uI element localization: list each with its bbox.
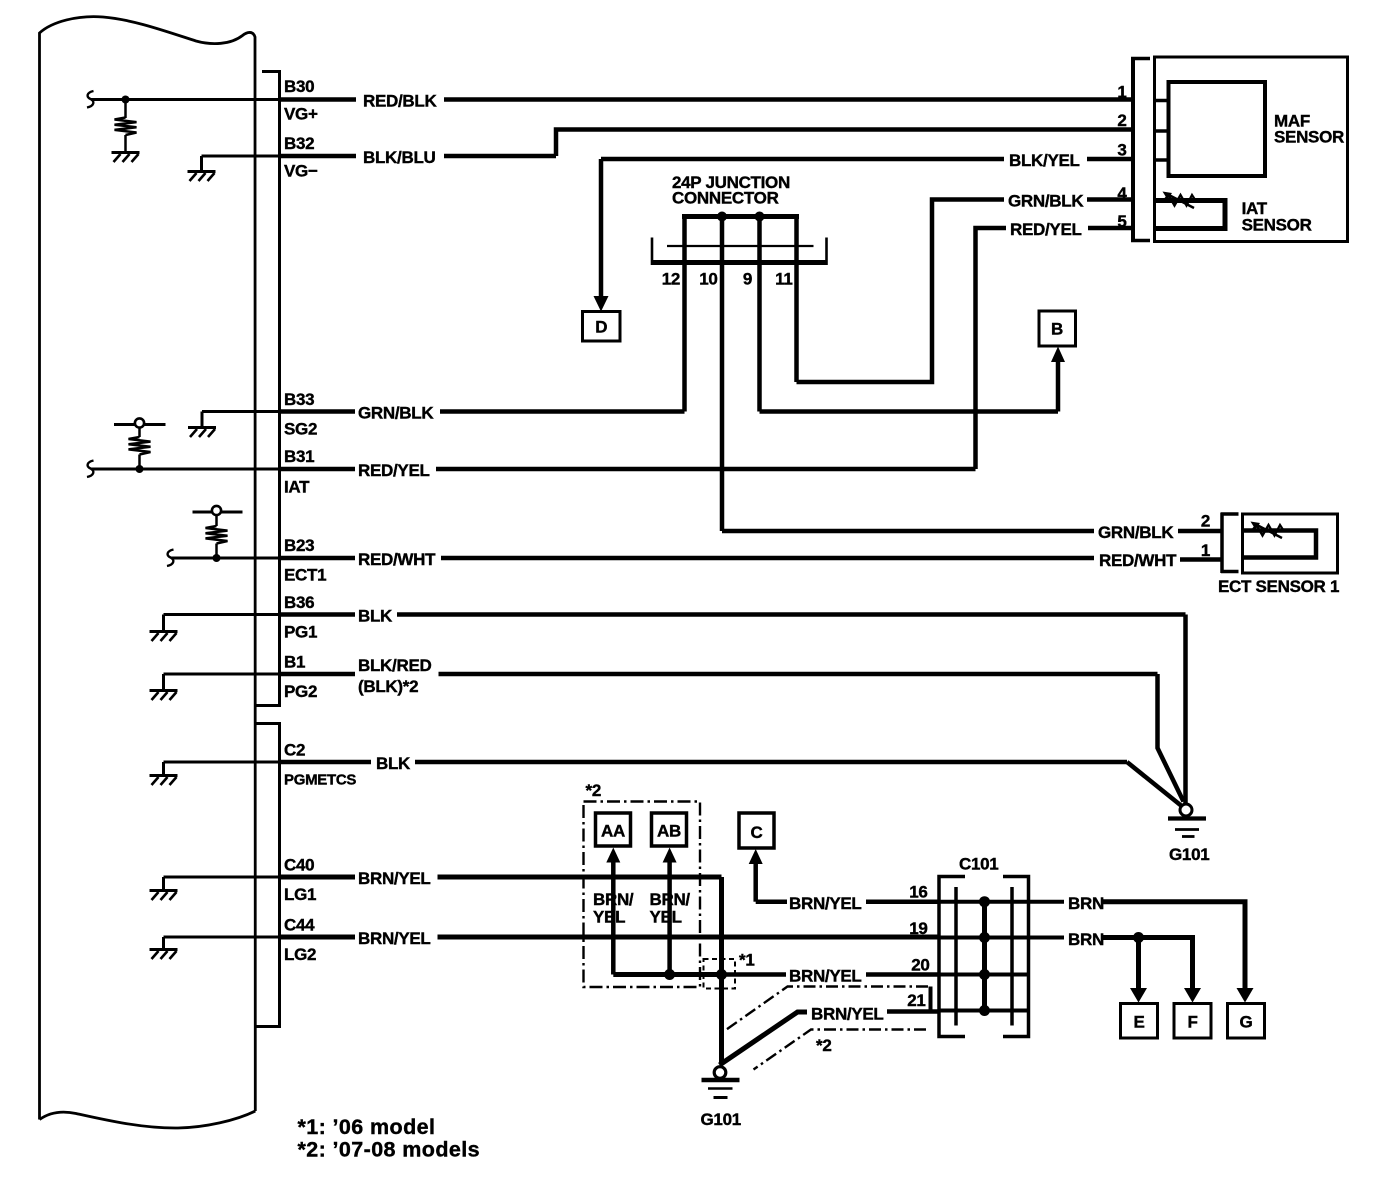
svg-text:*2: ’07-08 models: *2: ’07-08 models xyxy=(298,1138,480,1162)
svg-text:BRN: BRN xyxy=(1068,930,1104,949)
svg-text:*1: *1 xyxy=(739,951,754,970)
svg-text:(BLK)*2: (BLK)*2 xyxy=(358,677,418,696)
svg-text:PG2: PG2 xyxy=(284,682,317,701)
svg-text:BRN: BRN xyxy=(1068,894,1104,913)
svg-text:10: 10 xyxy=(699,270,717,289)
svg-text:F: F xyxy=(1187,1013,1197,1032)
svg-text:*2: *2 xyxy=(816,1036,831,1055)
svg-text:VG+: VG+ xyxy=(284,105,318,124)
svg-text:GRN/BLK: GRN/BLK xyxy=(1008,192,1084,211)
svg-text:CONNECTOR: CONNECTOR xyxy=(672,189,779,208)
svg-text:B33: B33 xyxy=(284,390,314,409)
svg-text:LG1: LG1 xyxy=(284,885,316,904)
svg-text:C40: C40 xyxy=(284,856,314,875)
svg-text:2: 2 xyxy=(1117,111,1126,130)
svg-text:RED/YEL: RED/YEL xyxy=(358,461,430,480)
svg-text:BRN/: BRN/ xyxy=(593,890,634,909)
svg-text:C2: C2 xyxy=(284,741,305,760)
svg-text:C: C xyxy=(751,823,763,842)
svg-text:16: 16 xyxy=(909,883,927,902)
svg-text:SENSOR: SENSOR xyxy=(1274,128,1344,147)
svg-text:B31: B31 xyxy=(284,447,314,466)
svg-text:C101: C101 xyxy=(959,855,998,874)
svg-text:ECT SENSOR 1: ECT SENSOR 1 xyxy=(1218,577,1339,596)
svg-text:YEL: YEL xyxy=(593,908,625,927)
svg-text:BRN/: BRN/ xyxy=(650,890,691,909)
svg-text:21: 21 xyxy=(907,991,925,1010)
svg-text:IAT: IAT xyxy=(284,478,310,497)
svg-text:ECT1: ECT1 xyxy=(284,566,326,585)
svg-text:BLK/YEL: BLK/YEL xyxy=(1009,151,1080,170)
svg-text:PG1: PG1 xyxy=(284,623,317,642)
svg-text:12: 12 xyxy=(662,270,680,289)
svg-text:G101: G101 xyxy=(701,1110,741,1129)
svg-text:GRN/BLK: GRN/BLK xyxy=(1098,523,1174,542)
svg-text:BLK: BLK xyxy=(358,607,393,626)
svg-text:B32: B32 xyxy=(284,134,314,153)
svg-text:SENSOR: SENSOR xyxy=(1242,216,1312,235)
svg-text:BRN/YEL: BRN/YEL xyxy=(358,869,431,888)
svg-text:*2: *2 xyxy=(586,781,601,800)
svg-text:5: 5 xyxy=(1117,212,1126,231)
svg-text:2: 2 xyxy=(1201,512,1210,531)
svg-text:BRN/YEL: BRN/YEL xyxy=(789,894,862,913)
svg-text:BRN/YEL: BRN/YEL xyxy=(811,1005,884,1024)
svg-text:VG−: VG− xyxy=(284,162,318,181)
svg-text:RED/BLK: RED/BLK xyxy=(363,92,437,111)
svg-text:PGMETCS: PGMETCS xyxy=(284,772,356,789)
svg-text:BLK/RED: BLK/RED xyxy=(358,656,431,675)
svg-text:1: 1 xyxy=(1117,83,1126,102)
svg-text:C44: C44 xyxy=(284,916,315,935)
svg-text:AB: AB xyxy=(657,822,681,841)
svg-text:4: 4 xyxy=(1117,184,1127,203)
svg-text:G: G xyxy=(1240,1013,1253,1032)
svg-text:RED/WHT: RED/WHT xyxy=(358,550,436,569)
svg-text:GRN/BLK: GRN/BLK xyxy=(358,404,434,423)
svg-text:AA: AA xyxy=(601,822,625,841)
svg-text:SG2: SG2 xyxy=(284,420,317,439)
svg-text:B: B xyxy=(1051,320,1063,339)
svg-text:11: 11 xyxy=(775,270,792,289)
svg-text:9: 9 xyxy=(743,270,752,289)
svg-text:E: E xyxy=(1133,1013,1144,1032)
svg-text:RED/YEL: RED/YEL xyxy=(1010,220,1082,239)
svg-text:YEL: YEL xyxy=(650,908,682,927)
svg-text:BLK: BLK xyxy=(376,754,411,773)
svg-text:D: D xyxy=(595,318,607,337)
svg-text:*1: ’06 model: *1: ’06 model xyxy=(298,1115,436,1139)
svg-text:B30: B30 xyxy=(284,77,314,96)
svg-text:RED/WHT: RED/WHT xyxy=(1099,551,1177,570)
svg-text:B23: B23 xyxy=(284,536,314,555)
svg-text:19: 19 xyxy=(909,919,927,938)
svg-text:3: 3 xyxy=(1117,141,1126,160)
svg-text:B1: B1 xyxy=(284,653,305,672)
svg-text:LG2: LG2 xyxy=(284,945,316,964)
svg-text:1: 1 xyxy=(1201,541,1210,560)
svg-text:BRN/YEL: BRN/YEL xyxy=(358,929,431,948)
svg-text:BLK/BLU: BLK/BLU xyxy=(363,148,436,167)
svg-text:20: 20 xyxy=(911,956,929,975)
svg-text:BRN/YEL: BRN/YEL xyxy=(789,967,862,986)
svg-text:G101: G101 xyxy=(1169,845,1209,864)
svg-text:B36: B36 xyxy=(284,593,314,612)
